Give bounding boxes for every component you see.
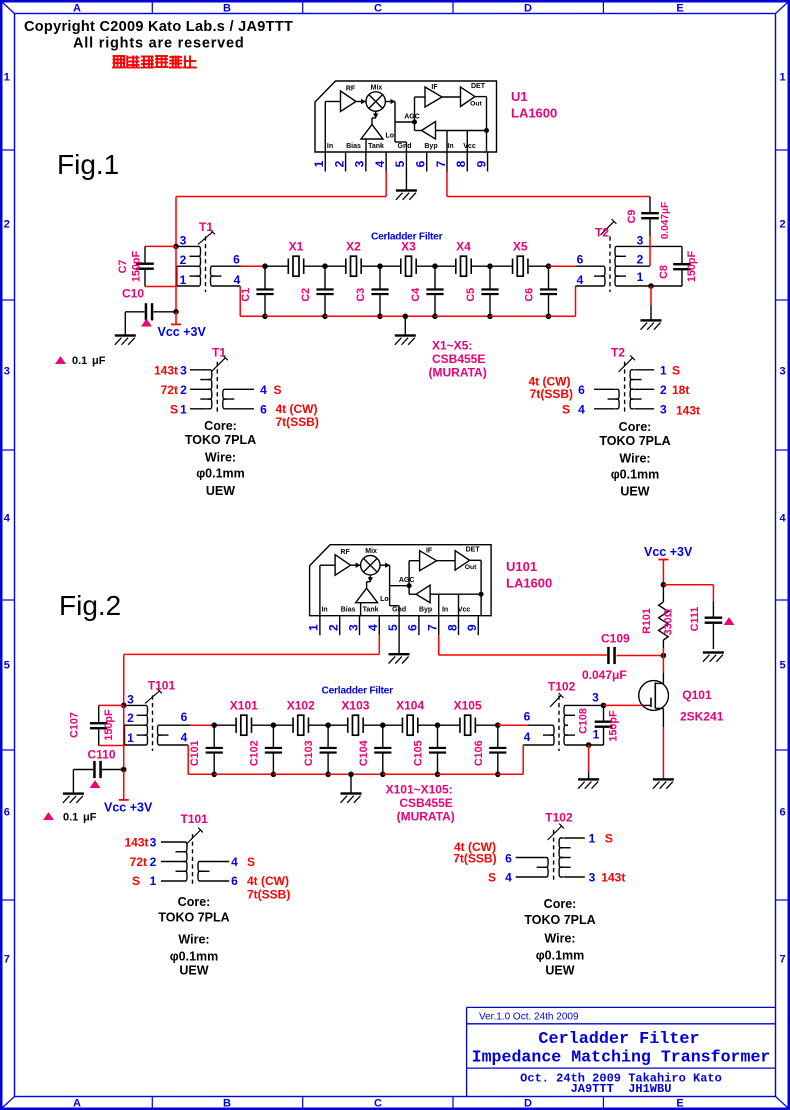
svg-text:4: 4 <box>780 513 787 525</box>
svg-text:Lo: Lo <box>386 133 395 140</box>
svg-text:IF: IF <box>431 84 438 91</box>
svg-text:A: A <box>73 3 81 15</box>
svg-text:2: 2 <box>180 383 187 397</box>
svg-text:3: 3 <box>780 366 786 378</box>
svg-text:1: 1 <box>780 72 786 84</box>
svg-text:UEW: UEW <box>206 484 235 498</box>
svg-text:1: 1 <box>180 402 187 416</box>
svg-text:CSB455E: CSB455E <box>432 352 485 366</box>
svg-text:150pF: 150pF <box>131 251 143 283</box>
svg-text:Vcc +3V: Vcc +3V <box>104 801 153 815</box>
svg-text:0.047μF: 0.047μF <box>582 668 627 682</box>
svg-text:5: 5 <box>386 624 400 631</box>
svg-text:2: 2 <box>4 219 10 231</box>
svg-text:7t(SSB): 7t(SSB) <box>247 888 290 902</box>
svg-text:C10: C10 <box>122 287 144 301</box>
svg-text:T2: T2 <box>595 226 609 240</box>
svg-text:TOKO 7PLA: TOKO 7PLA <box>158 910 229 924</box>
svg-text:All rights are reserved: All rights are reserved <box>73 36 245 52</box>
svg-text:Wire:: Wire: <box>619 451 650 465</box>
svg-text:Cerladder Filter: Cerladder Filter <box>538 1030 699 1049</box>
svg-text:X4: X4 <box>456 240 471 254</box>
svg-text:TOKO 7PLA: TOKO 7PLA <box>599 434 670 448</box>
svg-text:E: E <box>676 3 683 15</box>
svg-text:1: 1 <box>180 273 187 287</box>
svg-text:C102: C102 <box>248 740 260 766</box>
svg-text:UEW: UEW <box>179 963 208 977</box>
svg-text:Copyright C2009 Kato Lab.s / J: Copyright C2009 Kato Lab.s / JA9TTT <box>24 19 293 35</box>
svg-text:3: 3 <box>353 160 367 167</box>
svg-text:72t: 72t <box>161 383 178 397</box>
svg-text:X105: X105 <box>454 699 482 713</box>
svg-text:6: 6 <box>231 874 238 888</box>
svg-text:3: 3 <box>180 363 187 377</box>
svg-text:Bias: Bias <box>346 143 361 150</box>
svg-text:C3: C3 <box>355 288 367 302</box>
svg-text:In: In <box>321 607 327 614</box>
svg-text:8: 8 <box>445 624 459 631</box>
svg-text:Tank: Tank <box>363 607 379 614</box>
svg-text:φ0.1mm: φ0.1mm <box>196 467 245 481</box>
svg-text:4: 4 <box>373 160 387 167</box>
svg-text:(MURATA): (MURATA) <box>397 810 455 824</box>
svg-text:1: 1 <box>307 624 321 631</box>
svg-text:Vcc: Vcc <box>463 143 476 150</box>
svg-text:AGC: AGC <box>399 577 415 584</box>
svg-text:0.1: 0.1 <box>72 355 87 367</box>
svg-text:U1: U1 <box>511 89 528 104</box>
svg-text:4t (CW): 4t (CW) <box>276 402 318 416</box>
svg-text:4: 4 <box>181 731 188 745</box>
svg-text:UEW: UEW <box>620 485 649 499</box>
svg-text:72t: 72t <box>130 855 147 869</box>
svg-text:8: 8 <box>454 160 468 167</box>
svg-text:AGC: AGC <box>404 114 420 121</box>
svg-text:Q101: Q101 <box>682 688 712 702</box>
svg-text:X1: X1 <box>289 240 304 254</box>
svg-text:Byp: Byp <box>419 607 432 614</box>
svg-text:C6: C6 <box>524 288 536 302</box>
svg-text:6: 6 <box>578 383 585 397</box>
svg-text:3: 3 <box>637 234 644 248</box>
svg-text:RF: RF <box>346 86 356 93</box>
svg-text:LA1600: LA1600 <box>506 576 552 591</box>
svg-text:C2: C2 <box>300 288 312 302</box>
svg-text:Core:: Core: <box>204 419 237 433</box>
svg-text:C8: C8 <box>658 265 670 279</box>
svg-text:Lo: Lo <box>380 596 389 603</box>
svg-text:Fig.2: Fig.2 <box>59 590 121 621</box>
svg-text:S: S <box>488 871 496 885</box>
svg-text:3: 3 <box>660 402 667 416</box>
svg-text:Tank: Tank <box>368 143 384 150</box>
svg-text:φ0.1mm: φ0.1mm <box>536 949 585 963</box>
svg-text:Impedance Matching Transformer: Impedance Matching Transformer <box>472 1048 771 1067</box>
svg-text:6: 6 <box>414 160 428 167</box>
svg-text:X101~X105:: X101~X105: <box>386 783 453 797</box>
svg-text:7: 7 <box>4 954 10 966</box>
svg-text:Out: Out <box>465 564 477 571</box>
svg-text:3: 3 <box>346 624 360 631</box>
svg-text:6: 6 <box>505 852 512 866</box>
svg-text:RF: RF <box>340 549 350 556</box>
svg-text:3: 3 <box>150 836 157 850</box>
svg-text:In: In <box>442 607 448 614</box>
svg-text:LA1600: LA1600 <box>511 106 557 121</box>
svg-text:6: 6 <box>780 807 786 819</box>
svg-text:B: B <box>223 3 231 15</box>
svg-text:143t: 143t <box>154 363 178 377</box>
svg-text:Vcc +3V: Vcc +3V <box>644 545 693 559</box>
svg-text:T2: T2 <box>611 346 625 360</box>
svg-text:7: 7 <box>780 954 786 966</box>
svg-text:1: 1 <box>312 160 326 167</box>
svg-text:2: 2 <box>332 160 346 167</box>
svg-text:(MURATA): (MURATA) <box>429 366 487 380</box>
svg-text:5: 5 <box>780 660 786 672</box>
svg-text:4: 4 <box>577 273 584 287</box>
svg-text:9: 9 <box>474 160 488 167</box>
svg-text:143t: 143t <box>676 403 700 417</box>
svg-text:X103: X103 <box>341 699 369 713</box>
svg-text:UEW: UEW <box>545 964 574 978</box>
svg-text:1: 1 <box>589 832 596 846</box>
svg-text:C5: C5 <box>465 288 477 302</box>
svg-text:T1: T1 <box>199 220 213 234</box>
svg-text:0.047μF: 0.047μF <box>660 202 671 239</box>
svg-text:C4: C4 <box>410 288 422 302</box>
svg-text:Core:: Core: <box>619 420 652 434</box>
svg-text:C109: C109 <box>601 632 630 646</box>
svg-text:6: 6 <box>260 402 267 416</box>
svg-text:B: B <box>223 1098 231 1110</box>
svg-text:Wire:: Wire: <box>544 932 575 946</box>
svg-text:μF: μF <box>83 812 97 824</box>
svg-text:143t: 143t <box>124 836 148 850</box>
svg-text:T101: T101 <box>181 812 209 826</box>
svg-text:C104: C104 <box>358 740 370 766</box>
svg-text:C9: C9 <box>626 210 638 224</box>
svg-text:C1: C1 <box>240 288 252 302</box>
svg-text:2: 2 <box>660 383 667 397</box>
svg-text:5: 5 <box>393 160 407 167</box>
svg-text:Cerladder Filter: Cerladder Filter <box>322 686 394 697</box>
svg-text:X2: X2 <box>346 240 361 254</box>
svg-text:X104: X104 <box>396 699 424 713</box>
svg-text:C111: C111 <box>689 607 701 632</box>
svg-text:X1~X5:: X1~X5: <box>432 339 472 353</box>
svg-text:6: 6 <box>4 807 10 819</box>
svg-text:3: 3 <box>180 234 187 248</box>
svg-text:D: D <box>524 1098 532 1110</box>
svg-text:C: C <box>374 3 382 15</box>
svg-text:150pF: 150pF <box>686 251 698 283</box>
svg-text:X5: X5 <box>513 240 528 254</box>
svg-text:S: S <box>170 402 178 416</box>
svg-text:150pF: 150pF <box>103 709 115 741</box>
svg-text:9: 9 <box>465 624 479 631</box>
svg-text:Gnd: Gnd <box>392 607 406 614</box>
svg-text:6: 6 <box>233 253 240 267</box>
svg-text:S: S <box>274 383 282 397</box>
svg-text:1: 1 <box>150 874 157 888</box>
svg-text:C108: C108 <box>578 708 590 734</box>
svg-text:7: 7 <box>434 160 448 167</box>
svg-text:3: 3 <box>589 871 596 885</box>
svg-text:1: 1 <box>593 728 600 742</box>
svg-text:C103: C103 <box>303 740 315 766</box>
svg-text:Out: Out <box>470 101 482 108</box>
svg-text:C: C <box>374 1098 382 1110</box>
svg-text:2: 2 <box>180 253 187 267</box>
svg-text:18t: 18t <box>672 383 689 397</box>
svg-text:Gnd: Gnd <box>398 143 412 150</box>
svg-text:Byp: Byp <box>424 143 437 150</box>
svg-text:3: 3 <box>127 693 134 707</box>
svg-text:1: 1 <box>660 363 667 377</box>
svg-text:4: 4 <box>366 624 380 631</box>
svg-text:DET: DET <box>466 547 481 554</box>
svg-text:6: 6 <box>406 624 420 631</box>
svg-text:T101: T101 <box>148 679 176 693</box>
svg-text:IF: IF <box>426 548 433 555</box>
svg-text:7t(SSB): 7t(SSB) <box>276 415 319 429</box>
svg-text:In: In <box>327 143 333 150</box>
svg-text:C101: C101 <box>189 740 201 766</box>
svg-text:6: 6 <box>524 710 531 724</box>
svg-text:6: 6 <box>577 253 584 267</box>
svg-text:2SK241: 2SK241 <box>680 710 724 724</box>
svg-text:S: S <box>672 363 680 377</box>
svg-text:φ0.1mm: φ0.1mm <box>170 949 219 963</box>
svg-text:Wire:: Wire: <box>178 933 209 947</box>
svg-text:5: 5 <box>4 660 10 672</box>
svg-text:Cerladder Filter: Cerladder Filter <box>371 232 443 243</box>
svg-text:Bias: Bias <box>341 607 356 614</box>
svg-text:C105: C105 <box>413 740 425 766</box>
svg-text:4t (CW): 4t (CW) <box>247 874 289 888</box>
svg-text:2: 2 <box>150 855 157 869</box>
svg-text:4: 4 <box>505 871 512 885</box>
svg-text:R101: R101 <box>641 608 653 634</box>
svg-text:6: 6 <box>181 710 188 724</box>
svg-text:2: 2 <box>127 711 134 725</box>
svg-text:S: S <box>247 855 255 869</box>
svg-text:Vcc +3V: Vcc +3V <box>158 325 207 339</box>
svg-text:JA9TTT JH1WBU: JA9TTT JH1WBU <box>571 1082 672 1096</box>
svg-text:4: 4 <box>578 402 585 416</box>
svg-text:Core:: Core: <box>544 897 577 911</box>
svg-text:Mix: Mix <box>371 85 383 92</box>
svg-text:0.1: 0.1 <box>63 812 78 824</box>
svg-text:Vcc: Vcc <box>458 607 471 614</box>
svg-text:A: A <box>73 1098 81 1110</box>
svg-text:143t: 143t <box>601 871 625 885</box>
svg-text:4: 4 <box>231 855 238 869</box>
svg-text:Ver.1.0 Oct. 24th 2009: Ver.1.0 Oct. 24th 2009 <box>479 1012 579 1023</box>
svg-text:C7: C7 <box>117 260 129 274</box>
svg-text:Fig.1: Fig.1 <box>57 149 119 180</box>
svg-text:DET: DET <box>471 83 486 90</box>
svg-text:C107: C107 <box>69 712 81 738</box>
svg-text:Mix: Mix <box>365 548 377 555</box>
svg-text:T102: T102 <box>545 811 573 825</box>
svg-text:T102: T102 <box>548 680 576 694</box>
svg-text:2: 2 <box>637 253 644 267</box>
svg-text:1: 1 <box>4 72 10 84</box>
svg-text:E: E <box>676 1098 683 1110</box>
svg-text:7t(SSB): 7t(SSB) <box>453 852 496 866</box>
svg-text:μF: μF <box>92 355 106 367</box>
svg-text:3: 3 <box>592 691 599 705</box>
svg-text:S: S <box>605 832 613 846</box>
svg-text:4: 4 <box>234 273 241 287</box>
svg-text:1: 1 <box>637 270 644 284</box>
svg-text:T1: T1 <box>212 346 226 360</box>
svg-text:S: S <box>132 874 140 888</box>
svg-text:CSB455E: CSB455E <box>399 796 452 810</box>
svg-text:X102: X102 <box>287 699 315 713</box>
svg-text:D: D <box>524 3 532 15</box>
svg-text:7t(SSB): 7t(SSB) <box>530 387 573 401</box>
svg-text:4: 4 <box>524 730 531 744</box>
svg-text:φ0.1mm: φ0.1mm <box>611 467 660 481</box>
svg-text:S: S <box>562 402 570 416</box>
svg-text:2: 2 <box>327 624 341 631</box>
svg-text:X101: X101 <box>230 699 258 713</box>
svg-text:330Ω: 330Ω <box>663 608 675 635</box>
svg-text:2: 2 <box>780 219 786 231</box>
svg-text:C110: C110 <box>88 748 116 762</box>
svg-text:C106: C106 <box>473 740 485 766</box>
svg-text:150pF: 150pF <box>608 710 620 742</box>
svg-text:3: 3 <box>4 366 10 378</box>
svg-text:7: 7 <box>426 624 440 631</box>
svg-text:1: 1 <box>127 731 134 745</box>
svg-text:Wire:: Wire: <box>205 451 236 465</box>
svg-text:U101: U101 <box>506 559 537 574</box>
svg-text:TOKO 7PLA: TOKO 7PLA <box>185 433 256 447</box>
svg-text:4: 4 <box>260 383 267 397</box>
svg-text:TOKO 7PLA: TOKO 7PLA <box>524 913 595 927</box>
svg-text:Core:: Core: <box>178 895 211 909</box>
svg-text:In: In <box>447 143 453 150</box>
svg-text:4: 4 <box>4 513 11 525</box>
